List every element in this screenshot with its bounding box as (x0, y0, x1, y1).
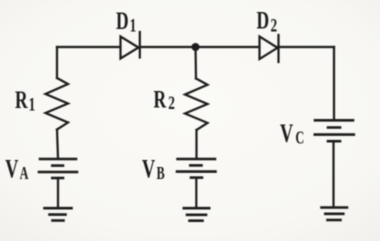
wire right vertical from top corner to VC (333, 47, 335, 119)
label D1 (116, 7, 136, 36)
ground (middle) (184, 208, 209, 221)
ground (left) (45, 208, 72, 220)
svg-text:D: D (116, 7, 129, 35)
wire R1 to VA (57, 130, 58, 159)
svg-text:V: V (280, 119, 293, 148)
svg-text:1: 1 (130, 14, 137, 36)
wire VC to ground (332, 141, 334, 206)
wire left vertical from top to R1 (56, 47, 58, 78)
svg-text:A: A (20, 165, 29, 184)
resistor R1 (46, 78, 69, 130)
label VB (142, 154, 165, 183)
wire VA to ground (57, 178, 59, 207)
wire top horizontal middle segment (140, 46, 259, 48)
battery VC (315, 120, 354, 141)
battery VA (39, 159, 77, 178)
resistor R2 (185, 79, 208, 131)
ground (right) (322, 208, 348, 221)
node junction dot (192, 43, 200, 51)
svg-text:2: 2 (168, 91, 175, 113)
svg-text:V: V (142, 154, 155, 183)
wire top horizontal left segment (57, 46, 120, 48)
svg-text:1: 1 (29, 93, 36, 115)
wire R2 to VB (195, 130, 197, 158)
label VA (5, 154, 28, 183)
svg-text:2: 2 (271, 14, 278, 36)
battery VB (177, 159, 216, 178)
label D2 (257, 7, 278, 37)
svg-text:R: R (15, 86, 28, 114)
label VC (280, 119, 304, 148)
diode D2 (260, 35, 279, 62)
label R1 (15, 86, 35, 115)
svg-text:B: B (156, 165, 164, 184)
label R2 (154, 85, 175, 113)
svg-text:R: R (154, 85, 167, 113)
svg-text:C: C (295, 130, 304, 149)
wire top horizontal right segment (278, 46, 334, 48)
svg-text:V: V (5, 154, 18, 183)
diode D1 (121, 32, 140, 59)
wire VB to ground (195, 178, 197, 207)
svg-text:D: D (257, 7, 270, 35)
wire middle vertical from node to R2 (194, 47, 197, 79)
